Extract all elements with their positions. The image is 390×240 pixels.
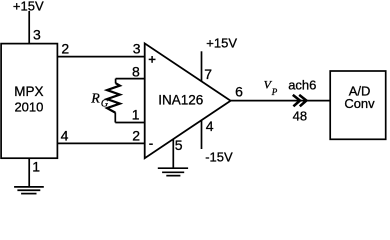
wire op-amp pin 8 stub xyxy=(116,78,145,80)
svg-text:R: R xyxy=(90,92,100,107)
svg-text:6: 6 xyxy=(235,84,243,100)
wire op-amp output to A/D converter xyxy=(231,100,331,102)
resistor RG xyxy=(107,79,120,123)
svg-text:8: 8 xyxy=(132,63,140,79)
svg-text:P: P xyxy=(271,87,278,97)
svg-text:7: 7 xyxy=(204,66,212,82)
svg-text:2: 2 xyxy=(61,41,69,57)
wire op-amp pin 5 to ground xyxy=(172,139,174,168)
ground (MPX pin 1) xyxy=(14,187,44,194)
wire MPX pin 2 to op-amp pin 3 xyxy=(57,56,144,58)
A/D converter box xyxy=(330,71,386,139)
- input marker xyxy=(149,143,153,145)
svg-text:48: 48 xyxy=(293,109,307,124)
svg-text:3: 3 xyxy=(33,26,41,42)
wire MPX pin 4 to op-amp pin 2 xyxy=(57,142,144,144)
sensor MPX2010 xyxy=(1,44,57,159)
svg-text:2010: 2010 xyxy=(14,100,43,115)
wire op-amp pin 1 stub xyxy=(115,122,144,124)
svg-text:Conv: Conv xyxy=(344,96,375,111)
label RG xyxy=(90,92,108,110)
svg-text:4: 4 xyxy=(206,118,214,134)
svg-text:ach6: ach6 xyxy=(288,77,316,92)
svg-text:MPX: MPX xyxy=(14,84,43,99)
svg-text:4: 4 xyxy=(61,127,69,143)
svg-text:INA126: INA126 xyxy=(158,92,203,107)
+ input marker xyxy=(149,56,156,63)
svg-text:3: 3 xyxy=(133,41,141,57)
svg-text:-15V: -15V xyxy=(205,150,233,165)
wire op-amp pin 4 to -15V xyxy=(201,120,203,149)
ground (op-amp pin 5) xyxy=(158,168,188,175)
svg-text:1: 1 xyxy=(32,158,40,174)
svg-text:2: 2 xyxy=(132,127,140,143)
op-amp U1 INA126 xyxy=(145,43,231,158)
svg-text:G: G xyxy=(101,98,108,109)
svg-text:+15V: +15V xyxy=(206,36,237,51)
svg-text:5: 5 xyxy=(175,137,183,153)
wire +15V to MPX pin 3 xyxy=(28,11,30,44)
svg-text:1: 1 xyxy=(132,107,140,123)
connector chevrons (channel tap) xyxy=(293,95,307,106)
node VP xyxy=(264,78,278,98)
wire MPX pin 1 to ground xyxy=(28,158,30,187)
wire op-amp pin 7 to +15V xyxy=(201,51,203,81)
